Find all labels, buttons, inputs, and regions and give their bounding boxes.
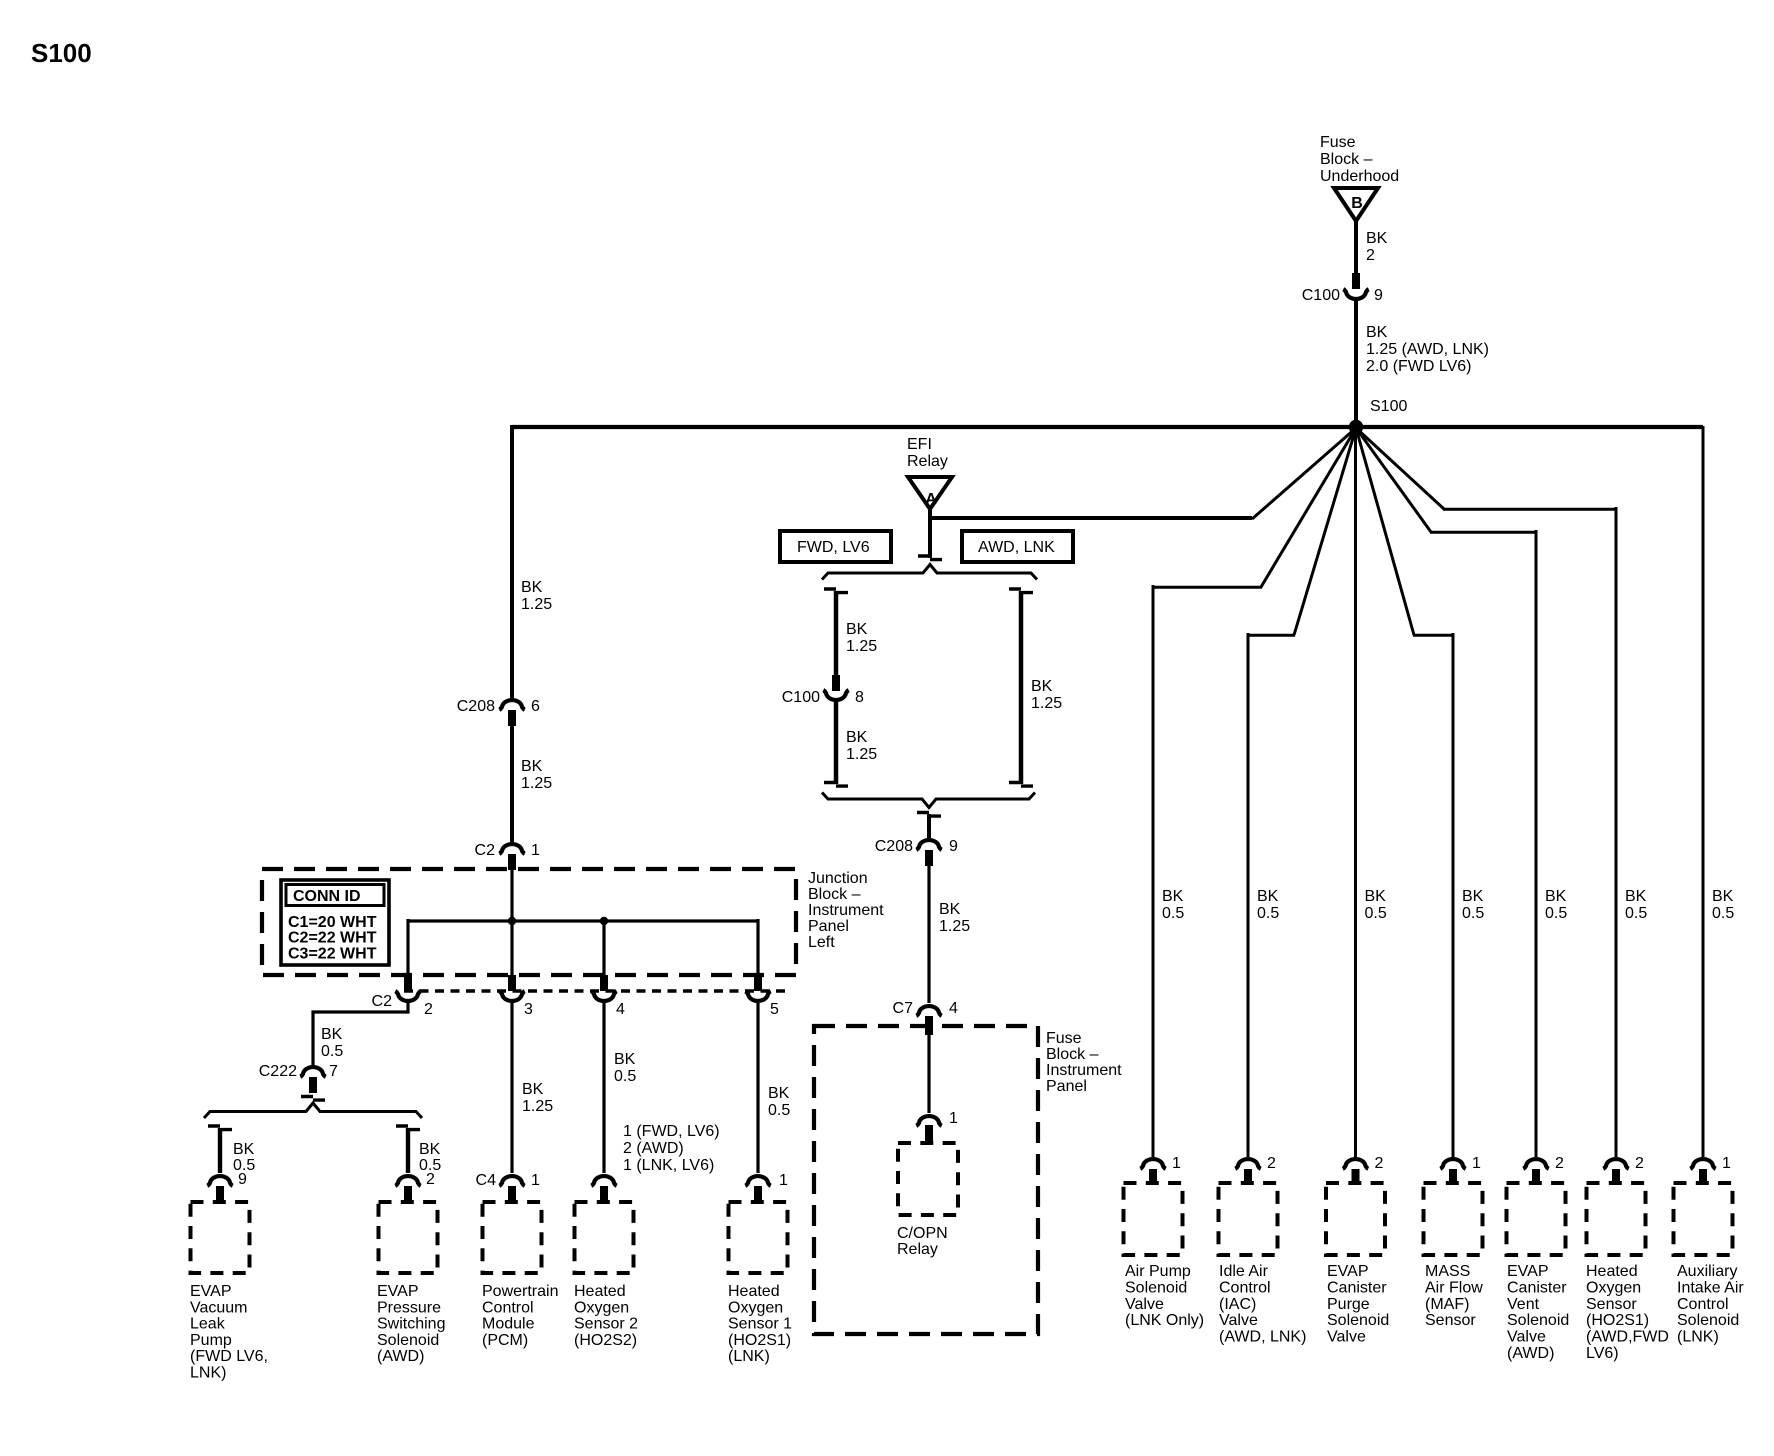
wire C100 pin 9 to splice S100 <box>1354 301 1358 426</box>
wire drop to pin 5 <box>756 919 759 977</box>
svg-text:Block –: Block – <box>1046 1046 1099 1063</box>
svg-text:MASS: MASS <box>1425 1263 1470 1280</box>
svg-text:CONN ID: CONN ID <box>293 888 361 905</box>
connector EVAP pressure switching solenoid pin 2 <box>395 1176 420 1186</box>
svg-text:Instrument: Instrument <box>1046 1062 1122 1079</box>
svg-text:2: 2 <box>1555 1155 1564 1172</box>
auxiliary intake air control solenoid (dashed box) <box>1674 1183 1733 1255</box>
wire drop to pin 4 <box>602 919 605 977</box>
svg-text:Purge: Purge <box>1327 1296 1370 1313</box>
off-page connector triangle A (EFI Relay) <box>908 477 952 509</box>
svg-text:8: 8 <box>855 689 864 706</box>
svg-text:BK: BK <box>1366 230 1388 247</box>
wire C2 pin 5 to heated oxygen sensor 1 <box>756 1003 759 1173</box>
svg-text:LV6): LV6) <box>1586 1345 1619 1362</box>
svg-text:(AWD, LNK): (AWD, LNK) <box>1219 1329 1306 1346</box>
svg-text:4: 4 <box>616 1001 625 1018</box>
svg-text:4: 4 <box>949 1000 958 1017</box>
svg-text:(AWD,FWD: (AWD,FWD <box>1586 1329 1669 1346</box>
connector EVAP vacuum leak pump pin 9 <box>207 1176 232 1186</box>
svg-text:0.5: 0.5 <box>768 1102 790 1119</box>
svg-text:Intake Air: Intake Air <box>1677 1279 1744 1296</box>
svg-text:9: 9 <box>238 1171 247 1188</box>
svg-text:BK: BK <box>1162 888 1184 905</box>
svg-text:1: 1 <box>531 1172 540 1189</box>
svg-text:9: 9 <box>1374 287 1383 304</box>
CONN ID table <box>281 880 389 965</box>
svg-text:1 (FWD, LV6): 1 (FWD, LV6) <box>623 1123 720 1140</box>
option jog below C222 <box>301 1097 325 1101</box>
svg-text:Oxygen: Oxygen <box>574 1299 629 1316</box>
C/OPN relay (dashed box) <box>898 1143 958 1215</box>
svg-text:BK: BK <box>846 729 868 746</box>
svg-text:2: 2 <box>1635 1155 1644 1172</box>
svg-text:Canister: Canister <box>1507 1279 1567 1296</box>
svg-text:1: 1 <box>1472 1155 1481 1172</box>
svg-text:BK: BK <box>1625 888 1647 905</box>
connector EVAP canister purge solenoid valve pin 2 <box>1343 1159 1368 1169</box>
svg-text:Auxiliary: Auxiliary <box>1677 1263 1737 1280</box>
wire S100 to heated oxygen sensor HO2S1 <box>1356 428 1616 1157</box>
svg-text:1: 1 <box>1172 1155 1181 1172</box>
svg-text:2: 2 <box>1267 1155 1276 1172</box>
wire AWD LNK stub <box>1019 591 1024 784</box>
svg-text:BK: BK <box>522 1081 544 1098</box>
svg-text:(LNK): (LNK) <box>1677 1329 1719 1346</box>
svg-text:0.5: 0.5 <box>614 1068 636 1085</box>
svg-text:2: 2 <box>424 1001 433 1018</box>
off-page connector triangle B (Fuse Block - Underhood) <box>1334 188 1378 221</box>
svg-text:2.0 (FWD LV6): 2.0 (FWD LV6) <box>1366 358 1472 375</box>
svg-text:9: 9 <box>949 838 958 855</box>
wire S100 to EVAP canister vent solenoid valve <box>1356 428 1536 1157</box>
svg-text:Idle Air: Idle Air <box>1219 1263 1269 1280</box>
svg-text:1: 1 <box>531 842 540 859</box>
wire S100 to idle air control valve <box>1248 428 1356 1157</box>
svg-text:1.25: 1.25 <box>521 775 552 792</box>
svg-text:Sensor: Sensor <box>1586 1296 1637 1313</box>
option jog AWD LNK stub top <box>1009 589 1033 593</box>
svg-text:Pressure: Pressure <box>377 1299 441 1316</box>
option jog FWD LV6 stub bottom <box>824 783 848 787</box>
idle air control valve (dashed box) <box>1219 1183 1278 1255</box>
EVAP pressure switching solenoid (dashed box) <box>379 1202 438 1273</box>
connector C100 pin 9 <box>1352 273 1360 289</box>
connector C2 pin 3 <box>508 975 516 991</box>
svg-text:1: 1 <box>1722 1155 1731 1172</box>
svg-text:Canister: Canister <box>1327 1279 1387 1296</box>
svg-text:Module: Module <box>482 1316 535 1333</box>
option brace split top <box>822 565 1037 580</box>
svg-text:EVAP: EVAP <box>190 1283 232 1300</box>
svg-text:(IAC): (IAC) <box>1219 1296 1256 1313</box>
svg-text:Panel: Panel <box>808 918 849 935</box>
svg-text:Valve: Valve <box>1125 1296 1164 1313</box>
EVAP canister purge solenoid valve (dashed box) <box>1326 1183 1385 1255</box>
wire S100 to EFI relay feed <box>1252 428 1356 519</box>
svg-text:Control: Control <box>482 1299 534 1316</box>
air pump solenoid valve (dashed box) <box>1124 1183 1183 1255</box>
svg-text:EVAP: EVAP <box>1507 1263 1549 1280</box>
wire drop to pin 2 <box>406 919 409 977</box>
svg-text:EVAP: EVAP <box>1327 1263 1369 1280</box>
svg-text:6: 6 <box>531 698 540 715</box>
svg-text:BK: BK <box>768 1085 790 1102</box>
connector C2 pin 2 <box>404 975 412 991</box>
connector EVAP canister vent solenoid valve pin 2 <box>1523 1159 1548 1169</box>
svg-text:EVAP: EVAP <box>377 1283 419 1300</box>
svg-text:0.5: 0.5 <box>1462 905 1484 922</box>
svg-text:1: 1 <box>949 1110 958 1127</box>
svg-text:BK: BK <box>1257 888 1279 905</box>
svg-text:1.25: 1.25 <box>939 918 970 935</box>
svg-text:(HO2S2): (HO2S2) <box>574 1332 637 1349</box>
svg-text:1.25: 1.25 <box>522 1098 553 1115</box>
svg-text:C208: C208 <box>457 698 495 715</box>
svg-text:Fuse: Fuse <box>1320 134 1356 151</box>
svg-text:0.5: 0.5 <box>321 1043 343 1060</box>
wire FWD LV6 stub lower <box>834 702 839 784</box>
svg-text:BK: BK <box>846 621 868 638</box>
svg-text:Sensor: Sensor <box>1425 1312 1476 1329</box>
wire trunk end to auxiliary intake air control solenoid <box>1702 426 1705 1157</box>
connector heated oxygen sensor HO2S1 pin 2 <box>1603 1159 1628 1169</box>
connector C2 pin 4 <box>600 975 608 991</box>
junction block - instrument panel left (dashed box) <box>262 869 796 975</box>
connector idle air control valve pin 2 <box>1235 1159 1260 1169</box>
svg-text:0.5: 0.5 <box>1545 905 1567 922</box>
svg-text:3: 3 <box>524 1001 533 1018</box>
connector face C2 dashed line <box>404 989 786 993</box>
svg-text:Solenoid: Solenoid <box>1125 1279 1187 1296</box>
wire S100 to air pump solenoid valve <box>1153 428 1356 1157</box>
svg-text:Block –: Block – <box>808 886 861 903</box>
svg-text:1.25: 1.25 <box>521 596 552 613</box>
svg-text:BK: BK <box>1712 888 1734 905</box>
wire C2 pin 3 to C4 pin 1 (PCM) <box>510 1003 513 1173</box>
svg-text:Solenoid: Solenoid <box>377 1332 439 1349</box>
option jog AWD LNK stub bottom <box>1009 783 1033 787</box>
wire C7 pin 4 to C/OPN relay <box>927 1034 930 1113</box>
MAF sensor (dashed box) <box>1424 1183 1483 1255</box>
svg-text:C100: C100 <box>782 689 820 706</box>
svg-text:Control: Control <box>1677 1296 1729 1313</box>
wire to EVAP pressure switching solenoid <box>406 1128 410 1173</box>
fuse block - instrument panel (dashed box) <box>814 1026 1038 1334</box>
svg-text:Heated: Heated <box>574 1283 626 1300</box>
svg-text:2: 2 <box>426 1171 435 1188</box>
svg-text:0.5: 0.5 <box>1257 905 1279 922</box>
svg-text:BK: BK <box>1462 888 1484 905</box>
svg-text:Solenoid: Solenoid <box>1327 1312 1389 1329</box>
svg-text:Underhood: Underhood <box>1320 168 1399 185</box>
svg-text:Relay: Relay <box>897 1241 938 1258</box>
svg-text:S100: S100 <box>1370 398 1407 415</box>
svg-text:C/OPN: C/OPN <box>897 1225 948 1242</box>
wire S100 to MAF sensor <box>1356 428 1453 1157</box>
svg-text:Switching: Switching <box>377 1316 445 1333</box>
svg-text:Valve: Valve <box>1219 1312 1258 1329</box>
svg-text:Fuse: Fuse <box>1046 1030 1082 1047</box>
wire C2 pin 4 to heated oxygen sensor 2 <box>602 1003 605 1173</box>
connector C/OPN relay pin 1 <box>916 1116 941 1126</box>
svg-text:Air Flow: Air Flow <box>1425 1279 1483 1296</box>
svg-text:1.25: 1.25 <box>846 638 877 655</box>
svg-text:2: 2 <box>1375 1155 1384 1172</box>
connector auxiliary intake air control solenoid pin 1 <box>1690 1159 1715 1169</box>
svg-text:(LNK): (LNK) <box>728 1348 770 1365</box>
wire C208 pin 6 to C2 pin 1 <box>510 726 514 843</box>
wire inside junction block vertical <box>510 869 513 977</box>
svg-text:BK: BK <box>1545 888 1567 905</box>
svg-text:Leak: Leak <box>190 1316 226 1333</box>
option brace merge bottom <box>822 793 1035 808</box>
svg-text:1: 1 <box>779 1172 788 1189</box>
svg-text:BK: BK <box>1366 324 1388 341</box>
svg-text:(HO2S1): (HO2S1) <box>728 1332 791 1349</box>
svg-text:Vacuum: Vacuum <box>190 1299 248 1316</box>
svg-text:Solenoid: Solenoid <box>1677 1312 1739 1329</box>
svg-text:(AWD): (AWD) <box>377 1348 424 1365</box>
connector air pump solenoid valve pin 1 <box>1140 1159 1165 1169</box>
svg-text:BK: BK <box>939 901 961 918</box>
option jog EVAP pressure switching solenoid branch <box>396 1126 420 1130</box>
svg-text:LNK): LNK) <box>190 1365 226 1382</box>
connector C2 pin 1 <box>499 844 524 854</box>
option label box AWD, LNK <box>962 531 1073 562</box>
wire FWD LV6 stub upper <box>834 591 839 675</box>
wire main trunk from S100 <box>512 425 1703 429</box>
svg-text:Instrument: Instrument <box>808 902 884 919</box>
svg-text:Control: Control <box>1219 1279 1271 1296</box>
svg-text:Panel: Panel <box>1046 1078 1087 1095</box>
connector C7 pin 4 <box>916 1006 941 1016</box>
svg-text:FWD, LV6: FWD, LV6 <box>797 539 870 556</box>
option brace split below C222 <box>204 1103 422 1118</box>
option jog below EFI relay <box>918 556 942 560</box>
svg-text:Powertrain: Powertrain <box>482 1283 558 1300</box>
option jog below merge <box>917 813 941 817</box>
svg-text:(MAF): (MAF) <box>1425 1296 1469 1313</box>
connector HO2S1 pin 1 <box>745 1176 770 1186</box>
svg-text:0.5: 0.5 <box>1712 905 1734 922</box>
connector C4 pin 1 <box>499 1176 524 1186</box>
connector C2 pin 5 <box>754 975 762 991</box>
wire S100 trunk down-leg to C208 pin 6 <box>510 425 514 699</box>
svg-text:A: A <box>925 491 937 508</box>
svg-text:C3=22 WHT: C3=22 WHT <box>288 945 377 962</box>
heated oxygen sensor HO2S1 (dashed box) <box>1587 1183 1646 1255</box>
svg-text:Heated: Heated <box>1586 1263 1638 1280</box>
svg-text:1.25: 1.25 <box>846 746 877 763</box>
svg-text:Vent: Vent <box>1507 1296 1540 1313</box>
svg-text:Valve: Valve <box>1507 1329 1546 1346</box>
svg-text:C7: C7 <box>893 1000 914 1017</box>
svg-text:C2: C2 <box>372 993 393 1010</box>
svg-text:C222: C222 <box>259 1063 297 1080</box>
wire C2 pin 2 to C222 pin 7 <box>313 1003 408 1066</box>
svg-text:BK: BK <box>1031 678 1053 695</box>
connector C208 pin 6 <box>499 700 524 710</box>
wire EFI relay to S100 diagonal feed <box>928 508 932 518</box>
svg-text:BK: BK <box>233 1141 255 1158</box>
powertrain control module (dashed box) <box>483 1202 542 1273</box>
svg-text:BK: BK <box>419 1141 441 1158</box>
svg-text:Heated: Heated <box>728 1283 780 1300</box>
svg-text:(PCM): (PCM) <box>482 1332 528 1349</box>
svg-text:2 (AWD): 2 (AWD) <box>623 1140 684 1157</box>
connector C222 pin 7 <box>300 1067 325 1077</box>
svg-text:(LNK Only): (LNK Only) <box>1125 1312 1204 1329</box>
junction node on bus at pin 4 <box>600 917 608 925</box>
heated oxygen sensor 1 (dashed box) <box>729 1202 788 1273</box>
heated oxygen sensor 2 (dashed box) <box>575 1202 634 1273</box>
svg-text:AWD, LNK: AWD, LNK <box>978 539 1055 556</box>
EVAP vacuum leak pump (dashed box) <box>191 1202 250 1273</box>
wire to EVAP vacuum leak pump <box>218 1128 222 1173</box>
svg-text:0.5: 0.5 <box>1625 905 1647 922</box>
svg-text:Sensor 1: Sensor 1 <box>728 1316 792 1333</box>
svg-text:(FWD LV6,: (FWD LV6, <box>190 1348 268 1365</box>
svg-text:Solenoid: Solenoid <box>1507 1312 1569 1329</box>
junction node on bus at pin 3 <box>508 917 516 925</box>
EVAP canister vent solenoid valve (dashed box) <box>1507 1183 1566 1255</box>
svg-text:C208: C208 <box>875 838 913 855</box>
svg-text:C4: C4 <box>476 1172 497 1189</box>
connector C100 pin 8 <box>832 675 840 691</box>
connector MAF sensor pin 1 <box>1440 1159 1465 1169</box>
svg-text:BK: BK <box>521 579 543 596</box>
svg-text:BK: BK <box>321 1026 343 1043</box>
svg-text:BK: BK <box>1365 888 1387 905</box>
svg-text:Junction: Junction <box>808 870 868 887</box>
svg-text:0.5: 0.5 <box>1162 905 1184 922</box>
connector HO2S2 pin <box>591 1176 616 1186</box>
svg-text:C100: C100 <box>1302 287 1340 304</box>
option jog EVAP vacuum leak pump branch <box>208 1126 232 1130</box>
svg-text:1.25: 1.25 <box>1031 695 1062 712</box>
connector C208 pin 9 <box>916 840 941 850</box>
svg-text:Relay: Relay <box>907 453 948 470</box>
wire triangle B to connector C100 pin 9 <box>1354 220 1358 274</box>
svg-text:(AWD): (AWD) <box>1507 1345 1554 1362</box>
svg-text:1 (LNK, LV6): 1 (LNK, LV6) <box>623 1157 714 1174</box>
wire S100 to EVAP canister purge solenoid valve <box>1354 428 1357 1157</box>
svg-text:Valve: Valve <box>1327 1329 1366 1346</box>
svg-text:Sensor 2: Sensor 2 <box>574 1316 638 1333</box>
wire C208 pin 9 to C7 pin 4 <box>927 866 930 1003</box>
option jog FWD LV6 stub top <box>824 589 848 593</box>
svg-text:2: 2 <box>1366 247 1375 264</box>
svg-text:0.5: 0.5 <box>1365 905 1387 922</box>
svg-text:Pump: Pump <box>190 1332 232 1349</box>
svg-text:Air Pump: Air Pump <box>1125 1263 1191 1280</box>
svg-text:Oxygen: Oxygen <box>728 1299 783 1316</box>
wire EFI relay drop between option boxes <box>928 516 932 558</box>
svg-text:1.25 (AWD, LNK): 1.25 (AWD, LNK) <box>1366 341 1489 358</box>
svg-text:BK: BK <box>614 1051 636 1068</box>
wire merge to C208 pin 9 <box>927 814 931 838</box>
svg-text:7: 7 <box>329 1063 338 1080</box>
svg-text:5: 5 <box>770 1001 779 1018</box>
svg-text:Oxygen: Oxygen <box>1586 1279 1641 1296</box>
svg-text:B: B <box>1351 195 1363 212</box>
option label box FWD, LV6 <box>780 531 891 562</box>
svg-text:C1=20 WHT: C1=20 WHT <box>288 914 377 931</box>
svg-text:(HO2S1): (HO2S1) <box>1586 1312 1649 1329</box>
svg-text:C2=22 WHT: C2=22 WHT <box>288 930 377 947</box>
svg-text:BK: BK <box>521 758 543 775</box>
svg-text:EFI: EFI <box>907 436 932 453</box>
svg-text:S100: S100 <box>31 38 92 68</box>
svg-text:Left: Left <box>808 934 835 951</box>
wire inside junction block bus <box>408 919 758 922</box>
svg-text:Block –: Block – <box>1320 151 1373 168</box>
svg-text:C2: C2 <box>475 842 496 859</box>
